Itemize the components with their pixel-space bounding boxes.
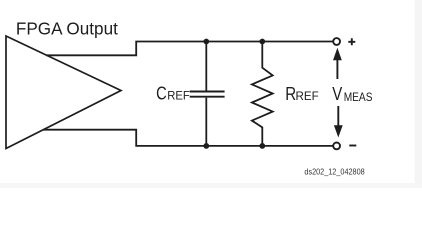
label V_MEAS [332, 84, 372, 104]
svg-text:C: C [156, 83, 167, 103]
svg-text:R: R [285, 84, 296, 104]
bottom margin band [0, 183, 422, 188]
resistor R_REF [252, 42, 273, 146]
buffer U1 (FPGA output driver triangle) [6, 36, 121, 149]
svg-text:FPGA Output: FPGA Output [16, 18, 118, 38]
junction (bottom rail / resistor) [259, 143, 265, 149]
svg-text:V: V [332, 84, 342, 104]
svg-text:ds202_12_042808: ds202_12_042808 [304, 167, 364, 176]
junction (bottom rail / capacitor) [203, 143, 209, 149]
wire (top output tab to top rail) [46, 42, 333, 56]
arrow up (V_MEAS to +) [333, 48, 342, 79]
terminal - (negative probe point) [333, 143, 356, 150]
svg-text:REF: REF [167, 88, 190, 102]
label FPGA Output [16, 18, 118, 38]
wire (bottom output tab to bottom rail) [43, 130, 333, 146]
arrow down (V_MEAS to -) [334, 106, 343, 138]
page background [0, 0, 422, 188]
label R_REF [285, 84, 319, 104]
right margin band [415, 0, 422, 188]
terminal + (positive probe point) [333, 38, 355, 45]
figure reference ds202_12_042808 [304, 167, 364, 176]
svg-text:REF: REF [296, 89, 319, 103]
svg-text:MEAS: MEAS [344, 90, 373, 104]
label C_REF [156, 83, 190, 103]
junction (top rail / resistor) [259, 39, 265, 45]
capacitor C_REF [190, 42, 225, 146]
junction (top rail / capacitor) [203, 39, 209, 45]
